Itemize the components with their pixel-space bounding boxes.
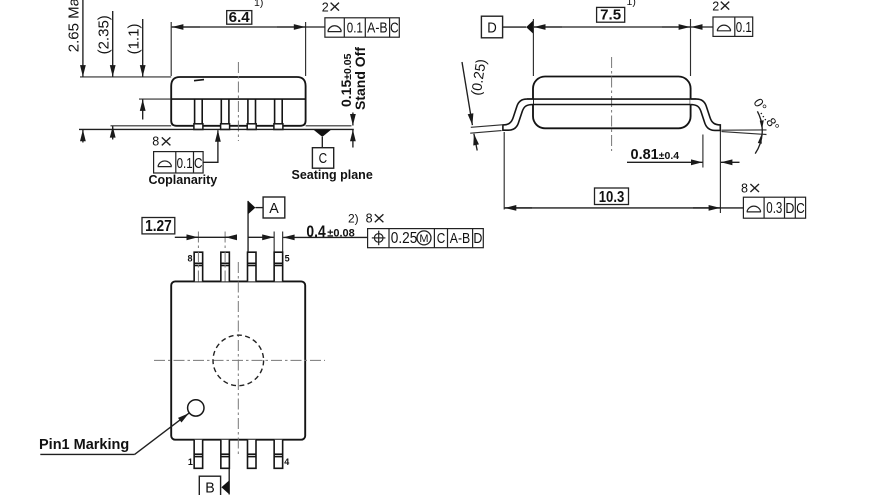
feature frame profile 0.1 A-B C	[325, 18, 399, 37]
svg-text:C: C	[796, 200, 805, 217]
feature frame profile 0.1 (view2)	[691, 17, 753, 36]
dashed circle (die pad)	[213, 335, 264, 386]
svg-text:D: D	[487, 20, 497, 36]
svg-text:1): 1)	[627, 0, 636, 8]
svg-text:2: 2	[712, 0, 719, 13]
2x note view1	[322, 1, 339, 15]
pin 7 centerline	[224, 232, 226, 284]
lead 6 (side)	[247, 99, 256, 129]
svg-text:8: 8	[741, 181, 748, 195]
datum C at seating plane	[292, 130, 373, 182]
pin 2 (plan)	[221, 440, 230, 469]
svg-text:0.1: 0.1	[736, 19, 752, 36]
datum A	[248, 197, 285, 252]
datum D box	[481, 16, 533, 38]
body parting line	[171, 98, 305, 100]
feature frame coplanarity 0.1 C	[149, 130, 218, 187]
horizontal centerline	[154, 359, 325, 361]
right gull-wing lead	[690, 99, 720, 130]
svg-text:8: 8	[152, 135, 159, 149]
vertical centerline	[237, 262, 239, 456]
dim 0.81	[627, 131, 740, 213]
dim 2.65 Max	[66, 0, 83, 143]
svg-text:0.4: 0.4	[306, 223, 326, 241]
pin 8 (plan)	[194, 252, 203, 281]
pin1 marking circle	[188, 400, 204, 416]
svg-text:Pin1 Marking: Pin1 Marking	[39, 437, 129, 453]
svg-text:M: M	[419, 233, 428, 245]
svg-text:5: 5	[285, 254, 290, 264]
dim (2.35)	[96, 11, 113, 140]
svg-text:0.1: 0.1	[177, 155, 193, 172]
svg-text:A: A	[269, 201, 279, 217]
svg-text:4: 4	[284, 457, 289, 467]
svg-text:10.3: 10.3	[599, 189, 625, 206]
pin 1 (plan)	[194, 440, 203, 469]
svg-text:(1.1): (1.1)	[126, 24, 143, 55]
standoff dim 0.15	[306, 47, 368, 148]
package body (end view)	[533, 77, 691, 129]
svg-text:C: C	[390, 20, 399, 37]
svg-text:0.3: 0.3	[766, 200, 782, 217]
8x note coplanarity	[152, 135, 170, 149]
svg-text:1): 1)	[254, 0, 263, 9]
svg-text:8: 8	[187, 253, 192, 263]
svg-text:C: C	[194, 155, 203, 172]
8x note view2	[741, 181, 759, 195]
dim (1.1)	[126, 19, 143, 120]
dim 1.27	[142, 218, 236, 238]
svg-text:A-B: A-B	[450, 230, 471, 247]
svg-text:Stand Off: Stand Off	[352, 47, 368, 110]
svg-text:A-B: A-B	[367, 20, 388, 37]
svg-text:Coplanarity: Coplanarity	[149, 173, 218, 187]
svg-text:Seating plane: Seating plane	[292, 168, 373, 182]
pin 3 (plan)	[248, 440, 257, 469]
feature frame profile 0.3 D C	[743, 197, 805, 218]
dim 7.5	[533, 0, 690, 76]
svg-text:B: B	[205, 480, 215, 495]
svg-text:0.25: 0.25	[391, 230, 418, 247]
feature frame position 0.25 M C A-B D	[368, 229, 484, 248]
package body (plan view)	[171, 281, 305, 439]
2x note view2	[712, 0, 729, 13]
dim 6.4	[171, 0, 325, 76]
pin1 side mark	[194, 80, 204, 81]
svg-text:1: 1	[188, 457, 193, 467]
svg-text:D: D	[785, 200, 794, 217]
pin 6 (plan)	[248, 252, 257, 281]
pin 8 centerline	[197, 232, 199, 284]
pin 7 (plan)	[221, 252, 230, 281]
svg-text:6.4: 6.4	[229, 9, 251, 26]
svg-text:±0.08: ±0.08	[327, 228, 354, 240]
svg-text:2): 2)	[348, 212, 359, 226]
lead band upper line	[527, 98, 696, 100]
svg-text:C: C	[437, 230, 446, 247]
svg-text:0.1: 0.1	[347, 20, 363, 37]
left gull-wing lead	[503, 99, 533, 130]
dim (0.25) lead thickness	[462, 58, 502, 151]
extension line body top	[80, 76, 171, 78]
dim 10.3	[504, 132, 743, 210]
svg-text:0.81±0.4: 0.81±0.4	[631, 147, 680, 163]
pin 4 (plan)	[274, 440, 283, 469]
svg-text:(2.35): (2.35)	[96, 15, 113, 54]
lead 7 (side)	[221, 99, 230, 129]
svg-text:D: D	[473, 230, 482, 247]
datum B	[199, 468, 229, 495]
seating plane line	[79, 128, 354, 130]
centerline	[237, 62, 239, 141]
lead 5 (side)	[274, 99, 283, 129]
svg-text:C: C	[319, 151, 328, 167]
svg-text:8: 8	[366, 212, 373, 226]
lead band lower line	[528, 104, 695, 106]
pin 5 (plan)	[274, 252, 283, 281]
extension line body bottom	[111, 125, 172, 127]
extension line parting (1.1)	[139, 98, 171, 100]
lead 8 (side)	[194, 99, 203, 129]
svg-text:2.65 Max: 2.65 Max	[66, 0, 83, 52]
pin1 marking label	[39, 413, 189, 454]
centerline	[611, 57, 613, 151]
package body (side view)	[171, 77, 305, 126]
svg-text:1.27: 1.27	[145, 218, 172, 235]
dim 0.4 leads	[248, 212, 383, 252]
angle dim 0..8 deg	[722, 95, 783, 153]
svg-text:7.5: 7.5	[600, 7, 621, 24]
svg-text:2: 2	[322, 1, 329, 15]
